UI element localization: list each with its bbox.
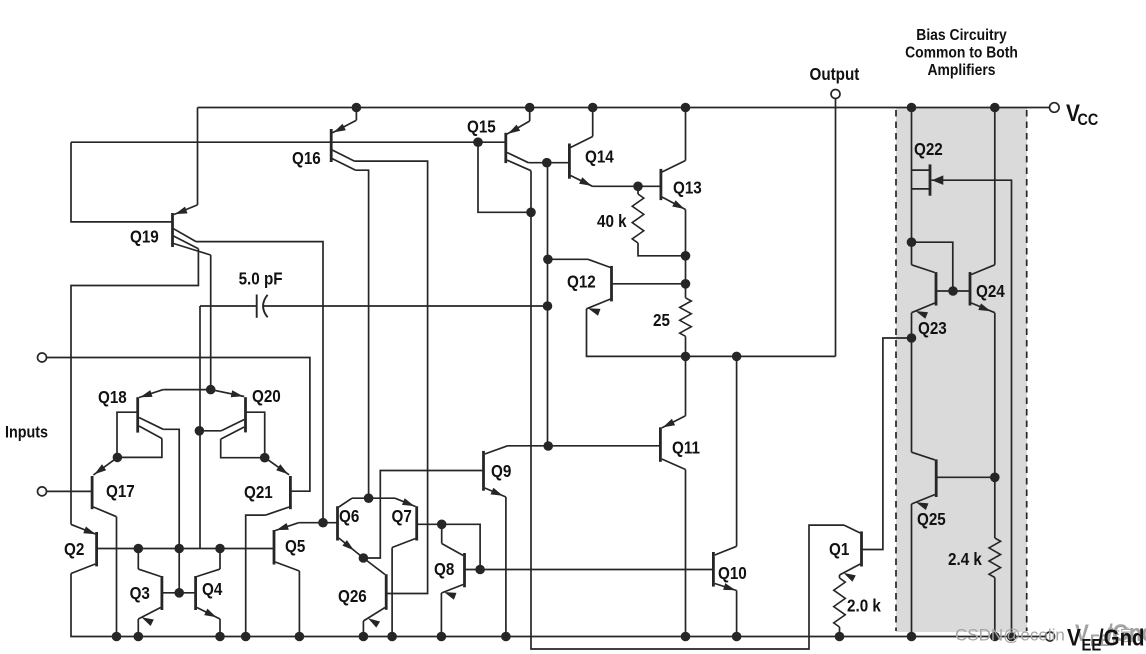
terminal Output xyxy=(831,90,840,99)
transistor Q23 xyxy=(912,265,937,319)
label Q25 xyxy=(917,510,946,529)
svg-text:5.0 pF: 5.0 pF xyxy=(239,270,283,289)
label Q20 xyxy=(252,387,281,406)
junction Q22c/base tie xyxy=(907,237,917,247)
dashed border right of bias region xyxy=(1026,110,1028,631)
junction VEE/Q9e xyxy=(501,632,511,642)
svg-text:Q6: Q6 xyxy=(339,507,359,526)
wire inverting input to Q17 base xyxy=(47,490,93,492)
wire Q19 base leg xyxy=(71,142,173,222)
junction Q18 b-c tie xyxy=(113,453,123,463)
svg-text:Q26: Q26 xyxy=(338,587,367,606)
wire Q14 emitter to Q13 base xyxy=(593,185,661,187)
svg-text:Q19: Q19 xyxy=(130,228,159,247)
transistor Q24 xyxy=(970,265,995,313)
transistor Q26 xyxy=(363,558,386,628)
wire Q22 upper stub xyxy=(912,169,931,171)
svg-text:Amplifiers: Amplifiers xyxy=(927,61,995,79)
label Q12 xyxy=(567,273,596,292)
wire Q8 emitter to VEE xyxy=(440,593,442,637)
wire Q16 collector1 to Q26 base xyxy=(354,161,427,593)
wire compensation cap left leg xyxy=(199,306,201,549)
dashed border left of bias region xyxy=(895,110,897,631)
junction VCC/Q16e xyxy=(352,103,362,113)
junction Q11 base node xyxy=(543,441,553,451)
wire Q15 collector1 to Q14 base xyxy=(528,162,569,164)
svg-text:Output: Output xyxy=(809,65,859,84)
wire Q9 collector to Q11 base xyxy=(508,445,661,447)
wire Q12 base xyxy=(612,283,686,285)
svg-text:Q5: Q5 xyxy=(285,537,305,556)
junction VEE/Q22 lead xyxy=(1007,632,1017,642)
wire Q8/Q10 base line xyxy=(465,569,714,571)
label 2.0 k xyxy=(847,597,882,616)
svg-text:Q23: Q23 xyxy=(918,319,947,338)
label Q6 xyxy=(339,507,359,526)
junction Q3/Q4 bases xyxy=(174,588,184,598)
label Q15 xyxy=(467,118,496,137)
label Q9 xyxy=(491,462,511,481)
transistor Q17 xyxy=(92,457,117,516)
transistor Q2 xyxy=(71,524,97,573)
shaded bias region xyxy=(896,108,1027,632)
junction Q6e/Q26c xyxy=(359,553,369,563)
wire Q23 emitter chain xyxy=(911,313,913,453)
junction VEE/Q4e xyxy=(215,632,225,642)
junction VEE/Q5c xyxy=(295,632,305,642)
label Q22 xyxy=(914,140,943,159)
watermark CSDN xyxy=(955,626,1136,646)
label Inputs xyxy=(5,424,48,442)
wire Q22 collector chain xyxy=(911,108,913,265)
wire Q7 base tie xyxy=(417,524,480,569)
wire Q9 base to Q26 collector node xyxy=(363,471,483,559)
wire Q16 emitter stub xyxy=(355,108,357,121)
svg-text:Q1: Q1 xyxy=(829,540,849,559)
junction Q20 b-c tie xyxy=(260,453,270,463)
svg-text:Q10: Q10 xyxy=(718,564,747,583)
wire common base line Q19-Q16-Q15 xyxy=(71,141,506,143)
svg-text:Q12: Q12 xyxy=(567,273,596,292)
svg-text:Q24: Q24 xyxy=(976,282,1006,301)
transistor Q19 xyxy=(173,205,211,255)
svg-text:Q14: Q14 xyxy=(585,148,615,167)
wire node x685 to 25-ohm xyxy=(685,256,687,298)
transistor Q13 xyxy=(661,161,686,210)
wire Q24 emitter to 2.4k xyxy=(994,313,996,538)
wire Q7 collector to VEE xyxy=(391,548,393,637)
junction Q3c/base line xyxy=(134,544,144,554)
wire Q2/Q5 base line xyxy=(97,548,274,550)
wire Q1 base to Q23 emitter xyxy=(862,338,912,550)
label Q2 xyxy=(64,540,84,559)
wire 25-ohm bottom to output node xyxy=(685,336,687,356)
wire Q20 collector2 hook xyxy=(221,439,265,458)
junction Q18/Q20 emitters xyxy=(206,385,216,395)
junction VEE/Q11c xyxy=(681,632,691,642)
svg-text:Q17: Q17 xyxy=(106,482,135,501)
label Bias Circuitry Common to Both Amplifiers xyxy=(905,26,1018,79)
junction Q15 base/collector tie xyxy=(526,208,536,218)
svg-text:Q15: Q15 xyxy=(467,118,496,137)
transistor Q16 xyxy=(331,120,356,170)
junction VEE/Q7c xyxy=(387,632,397,642)
label Q24 xyxy=(976,282,1006,301)
wire Q12 emitter / output node line xyxy=(587,309,836,357)
wire Q15 emitter stub xyxy=(529,108,531,122)
svg-text:Q4: Q4 xyxy=(202,580,223,599)
label Q14 xyxy=(585,148,615,167)
label Q5 xyxy=(285,537,305,556)
junction VEE/Q25e xyxy=(907,632,917,642)
label Q11 xyxy=(672,439,700,458)
svg-text:Q11: Q11 xyxy=(672,439,700,458)
wire cap right lead xyxy=(264,305,548,307)
transistor Q22 xyxy=(930,164,943,195)
junction Q14 base node xyxy=(542,158,552,168)
svg-text:V: V xyxy=(1067,624,1081,651)
label VCC xyxy=(1066,100,1098,130)
svg-text:CC: CC xyxy=(1078,111,1099,129)
junction VCC/Q14c xyxy=(588,103,598,113)
wire Q8 collector tie xyxy=(441,524,443,543)
wire Q16 collector2 to Q6/Q7 emitter node xyxy=(356,170,369,498)
svg-text:40 k: 40 k xyxy=(597,212,627,231)
svg-text:Q20: Q20 xyxy=(252,387,281,406)
wire VEE rail xyxy=(71,574,1046,637)
label Q19 xyxy=(130,228,159,247)
wire Q6/Q7 emitter header xyxy=(352,497,395,499)
terminal inverting input xyxy=(38,487,47,496)
transistor Q7 xyxy=(392,498,417,547)
wire Q26 emitter to VEE xyxy=(362,621,364,637)
label Q7 xyxy=(392,507,412,526)
junction Q25 base/2.4k xyxy=(990,473,1000,483)
label Q26 xyxy=(338,587,367,606)
label Q8 xyxy=(434,560,454,579)
wire Q18 collector1 to mirror bases xyxy=(163,429,179,593)
svg-text:Q7: Q7 xyxy=(392,507,412,526)
svg-text:Bias Circuitry: Bias Circuitry xyxy=(916,26,1007,44)
junction VEE/2.4k xyxy=(990,632,1000,642)
junction Q18c1/base line xyxy=(174,544,184,554)
transistor Q10 xyxy=(713,546,736,590)
terminal VEE/Gnd xyxy=(1046,632,1055,641)
transistor Q12 xyxy=(587,259,612,315)
wire Q20 base leg xyxy=(246,412,265,458)
label Q16 xyxy=(292,149,321,168)
wire non-inverting input to Q21 base xyxy=(47,358,310,492)
wire Q5 emitter / Q6 base xyxy=(299,522,338,524)
svg-text:Common to Both: Common to Both xyxy=(905,44,1018,62)
svg-text:Q16: Q16 xyxy=(292,149,321,168)
wire 40k top stub xyxy=(637,186,639,194)
wire Q22 lower stub xyxy=(912,188,931,190)
wire cap left lead xyxy=(200,305,257,307)
junction VEE/2.0k xyxy=(835,632,845,642)
label 2.4 k xyxy=(948,550,983,569)
junction VEE/Q8e xyxy=(437,632,447,642)
svg-text:Q18: Q18 xyxy=(98,388,127,407)
wire Q14 collector to VCC xyxy=(592,108,594,137)
junction VCC/Q13c xyxy=(681,103,691,113)
wire output terminal drop xyxy=(835,99,837,357)
transistor Q15 xyxy=(506,121,531,171)
label Q18 xyxy=(98,388,127,407)
svg-text:Q9: Q9 xyxy=(491,462,511,481)
resistor 40k xyxy=(632,194,644,243)
wire Q17 collector to VEE xyxy=(116,517,118,637)
label 5.0 pF xyxy=(239,270,283,289)
transistor Q9 xyxy=(484,446,508,497)
wire Q18 collector2 hook xyxy=(117,439,162,458)
junction cap right xyxy=(543,301,553,311)
wire Q12 collector feed xyxy=(548,258,588,260)
svg-text:Q21: Q21 xyxy=(244,483,273,502)
label Q23 xyxy=(918,319,947,338)
label Q4 xyxy=(202,580,223,599)
junction Q23e/Q1 base xyxy=(907,333,917,343)
wire Q19 collector1 to Q6 base node xyxy=(196,242,323,523)
junction Q7/Q8/Q10 bases xyxy=(475,565,485,575)
transistor Q25 xyxy=(912,452,937,510)
svg-text:Q2: Q2 xyxy=(64,540,84,559)
svg-text:Q8: Q8 xyxy=(434,560,454,579)
wire Q24 collector to VCC xyxy=(994,108,996,265)
wire Q13 collector to VCC xyxy=(685,108,687,161)
junction VEE/Q3e xyxy=(134,632,144,642)
capacitor C1 5.0 pF xyxy=(257,295,268,318)
junction Q6/Q7 emitters xyxy=(364,493,374,503)
junction output/Q11e xyxy=(681,352,691,362)
junction Q12 base xyxy=(681,279,691,289)
wire 2.4k bottom to VEE xyxy=(994,578,996,637)
wire Q4 emitter to VEE xyxy=(219,619,221,637)
junction 40k top xyxy=(633,182,643,192)
wire Q21 collector to VEE xyxy=(246,515,266,636)
junction Q15 base tie xyxy=(473,137,483,147)
label Q3 xyxy=(130,584,150,603)
junction Q20c1/cap leg xyxy=(195,426,205,436)
wire Q18/Q20 emitter header xyxy=(163,389,211,391)
wire Q23/Q24 base tie xyxy=(912,242,953,291)
wire Q3/Q4 base line xyxy=(162,592,196,594)
junction output/Q10c xyxy=(732,352,742,362)
junction VEE/Q17c xyxy=(112,632,122,642)
wire Q19 collector3 to Q18/Q20 emitters xyxy=(210,255,212,390)
wire Q25 emitter to VEE xyxy=(911,504,913,637)
label VEE/Gnd xyxy=(1067,624,1145,654)
junction Q8 collector tie xyxy=(437,520,447,530)
wire Q1 emitter stub xyxy=(839,575,841,578)
wire Q5 collector to VEE xyxy=(298,571,300,637)
wire Q11 collector to VEE xyxy=(685,470,687,637)
wire Q23-Q24 base line xyxy=(936,290,970,292)
svg-text:25: 25 xyxy=(653,311,670,330)
wire Q3 emitter to VEE xyxy=(137,619,139,637)
junction VEE/Q21c xyxy=(241,632,251,642)
wire 40k bottom to Q13 emitter node xyxy=(638,243,686,256)
junction VCC/Q24c xyxy=(990,103,1000,113)
wire Q13 emitter down xyxy=(685,210,687,256)
wire Q3 collector tie xyxy=(137,549,139,570)
wire Q19 emitter from VCC xyxy=(197,108,199,205)
resistor 25 xyxy=(680,298,692,337)
svg-text:Q3: Q3 xyxy=(130,584,150,603)
wire 2.0k bottom to VEE xyxy=(839,627,841,637)
label 40 k xyxy=(597,212,627,231)
svg-text:Q13: Q13 xyxy=(673,179,702,198)
wire VCC rail xyxy=(198,107,1050,109)
wire Q25 base xyxy=(936,476,995,478)
transistor Q4 xyxy=(196,569,220,619)
junction Q4c/base line xyxy=(215,544,225,554)
svg-text:Inputs: Inputs xyxy=(5,424,48,442)
svg-text:CSDN@ecolin: CSDN@ecolin xyxy=(955,626,1065,645)
svg-text:/Gnd: /Gnd xyxy=(1098,624,1145,651)
wire Q10 emitter to VEE xyxy=(736,591,738,637)
wire Q9 emitter to VEE xyxy=(505,497,507,637)
resistor 2.0k xyxy=(834,578,846,627)
terminal non-inverting input xyxy=(38,353,47,362)
svg-text:Q25: Q25 xyxy=(917,510,946,529)
transistor Q11 xyxy=(660,416,685,470)
label Q13 xyxy=(673,179,702,198)
svg-text:2.4 k: 2.4 k xyxy=(948,550,983,569)
label Output xyxy=(809,65,859,84)
transistor Q20 xyxy=(211,390,246,440)
transistor Q8 xyxy=(441,544,464,600)
junction VEE/Q26e xyxy=(359,632,369,642)
junction VCC/Q22 xyxy=(907,103,917,113)
wire node x548 (Q15 C1 to cap / Q12 / Q11 base) xyxy=(547,163,549,446)
svg-text:Q22: Q22 xyxy=(914,140,943,159)
wire Q11 emitter stub xyxy=(685,356,687,415)
junction Q13e/40k xyxy=(681,251,691,261)
transistor Q6 xyxy=(338,498,364,558)
junction Q12 collector xyxy=(543,254,553,264)
transistor Q1 xyxy=(840,525,862,582)
wire Q10 collector to output node xyxy=(736,356,738,546)
wire Q22 emitter lead to VEE xyxy=(932,180,1012,636)
junction Q6 base node xyxy=(318,518,328,528)
wire Q19 collector2 to Q2 emitter xyxy=(71,249,198,525)
label Q17 xyxy=(106,482,135,501)
junction VCC/Q15e xyxy=(525,103,535,113)
junction Q23/Q24 bases xyxy=(948,286,958,296)
label Q21 xyxy=(244,483,273,502)
transistor Q14 xyxy=(569,137,592,187)
wire Q18 base leg xyxy=(117,412,138,457)
wire Q15 base tie-down xyxy=(478,142,531,212)
transistor Q3 xyxy=(138,569,162,626)
terminal VCC xyxy=(1050,103,1060,113)
label Q10 xyxy=(718,564,747,583)
wire Q20 collector1 to cap node xyxy=(200,430,221,432)
resistor 2.4k xyxy=(989,538,1001,578)
label Q1 xyxy=(829,540,849,559)
transistor Q21 xyxy=(265,458,290,515)
label VEE/Gnd ghost xyxy=(1075,620,1146,651)
transistor Q5 xyxy=(274,523,299,571)
svg-text:2.0 k: 2.0 k xyxy=(847,597,882,616)
wire Q15 collector2 to Q1 collector xyxy=(531,171,844,649)
label 25 xyxy=(653,311,670,330)
wire Q4 collector tie xyxy=(219,549,221,570)
transistor Q18 xyxy=(138,390,164,439)
junction VEE/Q10e xyxy=(732,632,742,642)
